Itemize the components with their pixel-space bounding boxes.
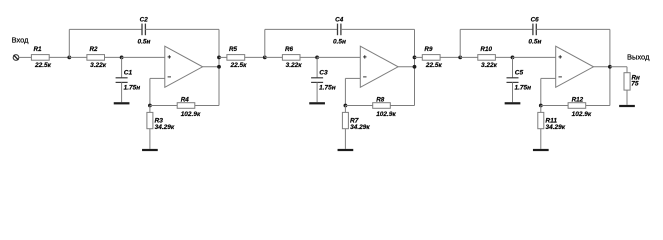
wire R1 to node A1: [49, 56, 69, 58]
wire R11 to ground: [540, 129, 542, 149]
wire top left of C2: [69, 28, 142, 30]
op-amp U2: [360, 46, 398, 87]
wire R4 to output line: [195, 105, 219, 107]
ground of C1: [114, 102, 130, 104]
svg-text:C4: C4: [335, 16, 344, 23]
svg-text:Выход: Выход: [627, 53, 650, 62]
junction op-amp U3 output node: [608, 65, 612, 69]
wire top left of C6: [460, 28, 533, 30]
capacitor C1: [116, 78, 128, 83]
op-amp U3: [556, 46, 594, 87]
wire top right of C6: [536, 28, 610, 30]
junction node A3: [458, 56, 462, 60]
svg-text:R6: R6: [285, 46, 294, 53]
resistor R5: [227, 55, 245, 61]
svg-text:R4: R4: [181, 97, 190, 104]
wire R8 to output line: [390, 105, 414, 107]
ground of C3: [309, 102, 325, 104]
wire R10 to node B3: [495, 56, 512, 58]
wire node A2 up to C4: [264, 29, 266, 57]
svg-text:0.5н: 0.5н: [528, 38, 541, 45]
svg-text:3.22к: 3.22к: [481, 62, 498, 69]
wire - input down to node C2: [344, 78, 346, 105]
wire R6 to node B2: [300, 56, 317, 58]
wire node C2 down to R7: [344, 106, 346, 113]
junction node B2: [315, 56, 319, 60]
wire op-amp U3 - input: [541, 77, 556, 79]
svg-text:C2: C2: [140, 16, 149, 23]
wire R7 to ground: [344, 129, 346, 149]
wire top right of C2: [145, 28, 219, 30]
resistor R2: [87, 55, 105, 61]
wire R3 to ground: [149, 129, 151, 149]
svg-text:R8: R8: [376, 97, 385, 104]
wire op-amp U3 output to Rн: [610, 66, 627, 68]
wire node C1 down to R3: [149, 106, 151, 113]
wire stage2 output tap: [413, 56, 417, 60]
wire node C1 to R4: [150, 105, 177, 107]
wire node A3 up to C6: [459, 29, 461, 57]
wire node B3 to op-amp U3 + input: [513, 56, 556, 58]
junction node C1: [148, 104, 152, 108]
svg-text:34.29к: 34.29к: [546, 124, 566, 131]
wire R2 to node B1: [105, 56, 122, 58]
svg-text:1.75н: 1.75н: [319, 85, 336, 92]
wire R12 to output line: [586, 105, 610, 107]
svg-text:34.29к: 34.29к: [350, 124, 370, 131]
wire top right of C4: [341, 28, 415, 30]
wire - input down to node C1: [149, 78, 151, 105]
wire R5 to node A2: [245, 56, 265, 58]
resistor R6: [282, 55, 300, 61]
capacitor C5: [507, 78, 519, 83]
svg-text:0.5н: 0.5н: [333, 38, 346, 45]
wire node B1 to op-amp U1 + input: [122, 56, 165, 58]
resistor R11: [538, 112, 544, 128]
wire node A1 up to C2: [68, 29, 70, 57]
wire op-amp U1 output: [203, 66, 219, 68]
output feedback line of U1: [218, 29, 220, 105]
wire node C3 down to R11: [540, 106, 542, 113]
junction node A1: [67, 56, 71, 60]
ground of Rн: [619, 105, 635, 107]
wire C1 to ground: [121, 82, 123, 102]
wire node B2 to op-amp U2 + input: [317, 56, 360, 58]
resistor R9: [422, 55, 440, 61]
wire stage1 output tap: [217, 56, 221, 60]
resistor R1: [31, 55, 49, 61]
svg-text:R2: R2: [90, 46, 99, 53]
junction op-amp U2 output node: [413, 65, 417, 69]
wire op-amp U1 - input: [150, 77, 165, 79]
wire node B1 down to C1: [121, 57, 123, 77]
junction node B3: [511, 56, 515, 60]
wire op-amp U3 output: [594, 66, 610, 68]
svg-text:102.9к: 102.9к: [376, 111, 396, 118]
capacitor C4: [338, 24, 341, 36]
svg-text:22.5к: 22.5к: [230, 62, 248, 69]
wire op-amp U2 output: [398, 66, 414, 68]
ground of R3: [142, 149, 158, 151]
wire node A3 to R10: [460, 56, 478, 58]
ground of R11: [533, 149, 549, 151]
svg-text:R1: R1: [34, 46, 43, 53]
svg-text:22.5к: 22.5к: [34, 62, 52, 69]
resistor R7: [342, 112, 348, 128]
wire node C2 to R8: [345, 105, 372, 107]
wire Rн to ground: [626, 90, 628, 105]
output feedback line of U2: [414, 29, 416, 105]
svg-text:3.22к: 3.22к: [286, 62, 303, 69]
svg-text:0.5н: 0.5н: [138, 38, 151, 45]
junction node C3: [539, 104, 543, 108]
svg-text:1.75н: 1.75н: [124, 85, 141, 92]
wire input terminal to R1: [19, 56, 32, 58]
svg-text:34.29к: 34.29к: [155, 124, 175, 131]
svg-text:1.75н: 1.75н: [515, 85, 532, 92]
output feedback line of U3: [609, 29, 611, 105]
input terminal X1: [13, 55, 19, 61]
wire node B3 down to C5: [512, 57, 514, 77]
resistor R4: [177, 103, 195, 109]
resistor Rн (load): [624, 73, 630, 90]
wire node A1 to R2: [69, 56, 87, 58]
wire R9 to node A3: [440, 56, 460, 58]
op-amp U1: [165, 46, 203, 87]
svg-text:R12: R12: [572, 97, 584, 104]
svg-text:Вход: Вход: [12, 35, 30, 44]
junction op-amp U1 output node: [217, 65, 221, 69]
svg-text:C5: C5: [515, 70, 524, 77]
wire C5 to ground: [512, 82, 514, 102]
wire node C3 to R12: [541, 105, 568, 107]
wire node B2 down to C3: [316, 57, 318, 77]
junction node B1: [120, 56, 124, 60]
resistor R12: [568, 103, 586, 109]
junction node C2: [344, 104, 348, 108]
wire C3 to ground: [316, 82, 318, 102]
wire top left of C4: [265, 28, 338, 30]
svg-text:C1: C1: [124, 70, 133, 77]
junction node A2: [263, 56, 267, 60]
ground of R7: [338, 149, 354, 151]
svg-text:C6: C6: [531, 16, 540, 23]
capacitor C2: [142, 24, 145, 36]
svg-text:3.22к: 3.22к: [90, 62, 107, 69]
svg-text:R9: R9: [424, 46, 433, 53]
wire node A2 to R6: [265, 56, 283, 58]
resistor R8: [373, 103, 391, 109]
wire - input down to node C3: [540, 78, 542, 105]
resistor R10: [478, 55, 496, 61]
wire op-amp U2 - input: [345, 77, 360, 79]
svg-text:22.5к: 22.5к: [425, 62, 443, 69]
svg-text:75: 75: [631, 81, 639, 88]
svg-text:102.9к: 102.9к: [572, 111, 592, 118]
svg-text:C3: C3: [319, 70, 328, 77]
capacitor C6: [533, 24, 536, 36]
svg-text:102.9к: 102.9к: [181, 111, 201, 118]
capacitor C3: [311, 78, 323, 83]
resistor R3: [147, 112, 153, 128]
ground of C5: [505, 102, 521, 104]
svg-text:R10: R10: [480, 46, 492, 53]
svg-text:R5: R5: [229, 46, 238, 53]
